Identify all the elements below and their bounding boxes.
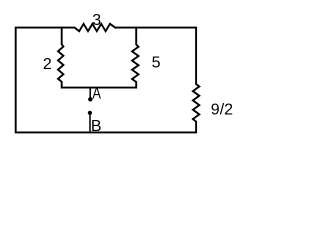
svg-text:5: 5 [152,55,161,72]
svg-text:9/2: 9/2 [211,102,233,119]
svg-text:2: 2 [43,56,52,73]
svg-text:3: 3 [92,12,101,29]
svg-text:B: B [91,118,102,135]
svg-text:A: A [92,86,101,103]
